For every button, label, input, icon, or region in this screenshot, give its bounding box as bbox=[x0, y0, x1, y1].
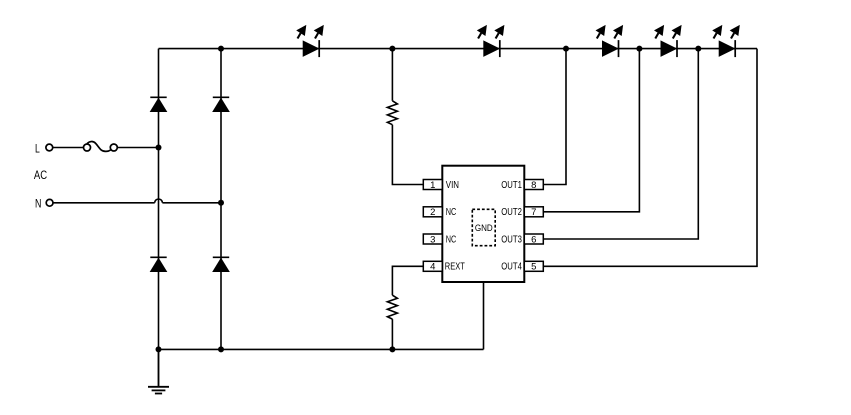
wire N hop over left leg bbox=[155, 199, 163, 203]
node R1 top rail junction bbox=[389, 46, 395, 52]
ic U1 pin 5 box bbox=[524, 261, 543, 272]
fuse F1 bbox=[84, 142, 118, 152]
resistor R2 bbox=[387, 295, 397, 319]
ic U1 pin 3 box bbox=[423, 234, 442, 245]
led LED4 bbox=[654, 25, 682, 57]
svg-text:GND: GND bbox=[475, 223, 493, 234]
ic U1 body bbox=[442, 166, 524, 282]
wire top rail bbox=[159, 48, 758, 50]
wire R2 to bottom rail bbox=[391, 319, 393, 349]
ic U1 pin 4 box bbox=[423, 261, 442, 272]
svg-text:7: 7 bbox=[531, 207, 536, 218]
wire L lead bbox=[53, 147, 84, 149]
svg-text:OUT4: OUT4 bbox=[501, 262, 522, 273]
svg-text:L: L bbox=[35, 141, 40, 155]
wire left bridge leg bbox=[158, 49, 160, 386]
svg-text:N: N bbox=[35, 197, 41, 211]
node R2 bottom rail junction bbox=[389, 346, 395, 352]
svg-text:2: 2 bbox=[430, 207, 435, 218]
ic U1 pin 6 box bbox=[524, 234, 543, 245]
resistor R1 bbox=[387, 101, 397, 125]
svg-text:6: 6 bbox=[531, 234, 536, 245]
led LED3 bbox=[596, 25, 624, 57]
wire fuse to bridge bbox=[117, 147, 158, 149]
svg-text:5: 5 bbox=[531, 262, 536, 273]
svg-text:OUT1: OUT1 bbox=[501, 180, 522, 191]
diode D4 bbox=[213, 257, 230, 271]
terminal N bbox=[35, 197, 53, 211]
ground bbox=[148, 349, 169, 393]
gnd pad box bbox=[472, 209, 495, 245]
svg-text:8: 8 bbox=[531, 180, 536, 191]
wire REXT to R2 bbox=[392, 266, 423, 295]
diode D1 bbox=[150, 97, 167, 111]
svg-text:NC: NC bbox=[446, 207, 457, 218]
wire right bridge leg bbox=[220, 49, 222, 350]
node OUT2 top rail bbox=[636, 46, 642, 52]
node L junction bbox=[156, 145, 162, 151]
svg-text:3: 3 bbox=[430, 234, 435, 245]
wire OUT1 bbox=[543, 49, 566, 185]
svg-text:OUT2: OUT2 bbox=[501, 207, 522, 218]
svg-text:VIN: VIN bbox=[446, 180, 459, 191]
node OUT3 top rail bbox=[695, 46, 701, 52]
wire GND drop bbox=[483, 246, 485, 350]
wire bottom rail bbox=[159, 348, 484, 350]
wire N to right leg bbox=[162, 202, 221, 204]
diode D2 bbox=[213, 97, 230, 111]
led LED1 bbox=[296, 25, 324, 57]
wire R1 to VIN bbox=[392, 125, 423, 185]
svg-text:AC: AC bbox=[34, 168, 47, 182]
wire OUT4 bbox=[543, 49, 757, 267]
svg-text:1: 1 bbox=[430, 180, 435, 191]
wire R1 branch from top rail bbox=[391, 49, 393, 101]
ic U1 pin 8 box bbox=[524, 180, 543, 191]
svg-text:4: 4 bbox=[430, 262, 435, 273]
ic U1 pin 7 box bbox=[524, 207, 543, 218]
node bottom rail left leg bbox=[156, 346, 162, 352]
svg-text:NC: NC bbox=[446, 234, 457, 245]
terminal L bbox=[35, 141, 53, 155]
wire N lead bbox=[53, 202, 155, 204]
led LED2 bbox=[477, 25, 505, 57]
led LED5 bbox=[712, 25, 740, 57]
ic U1 pin 1 box bbox=[423, 180, 442, 191]
node OUT1 top rail bbox=[563, 46, 569, 52]
svg-text:REXT: REXT bbox=[445, 262, 465, 273]
diode D3 bbox=[150, 257, 167, 271]
node top rail right leg bbox=[218, 46, 224, 52]
ic U1 pin 2 box bbox=[423, 207, 442, 218]
svg-text:OUT3: OUT3 bbox=[501, 234, 522, 245]
wire OUT3 bbox=[543, 49, 698, 239]
node bottom rail right leg bbox=[218, 346, 224, 352]
node N junction bbox=[218, 200, 224, 206]
wire OUT2 bbox=[543, 49, 639, 212]
